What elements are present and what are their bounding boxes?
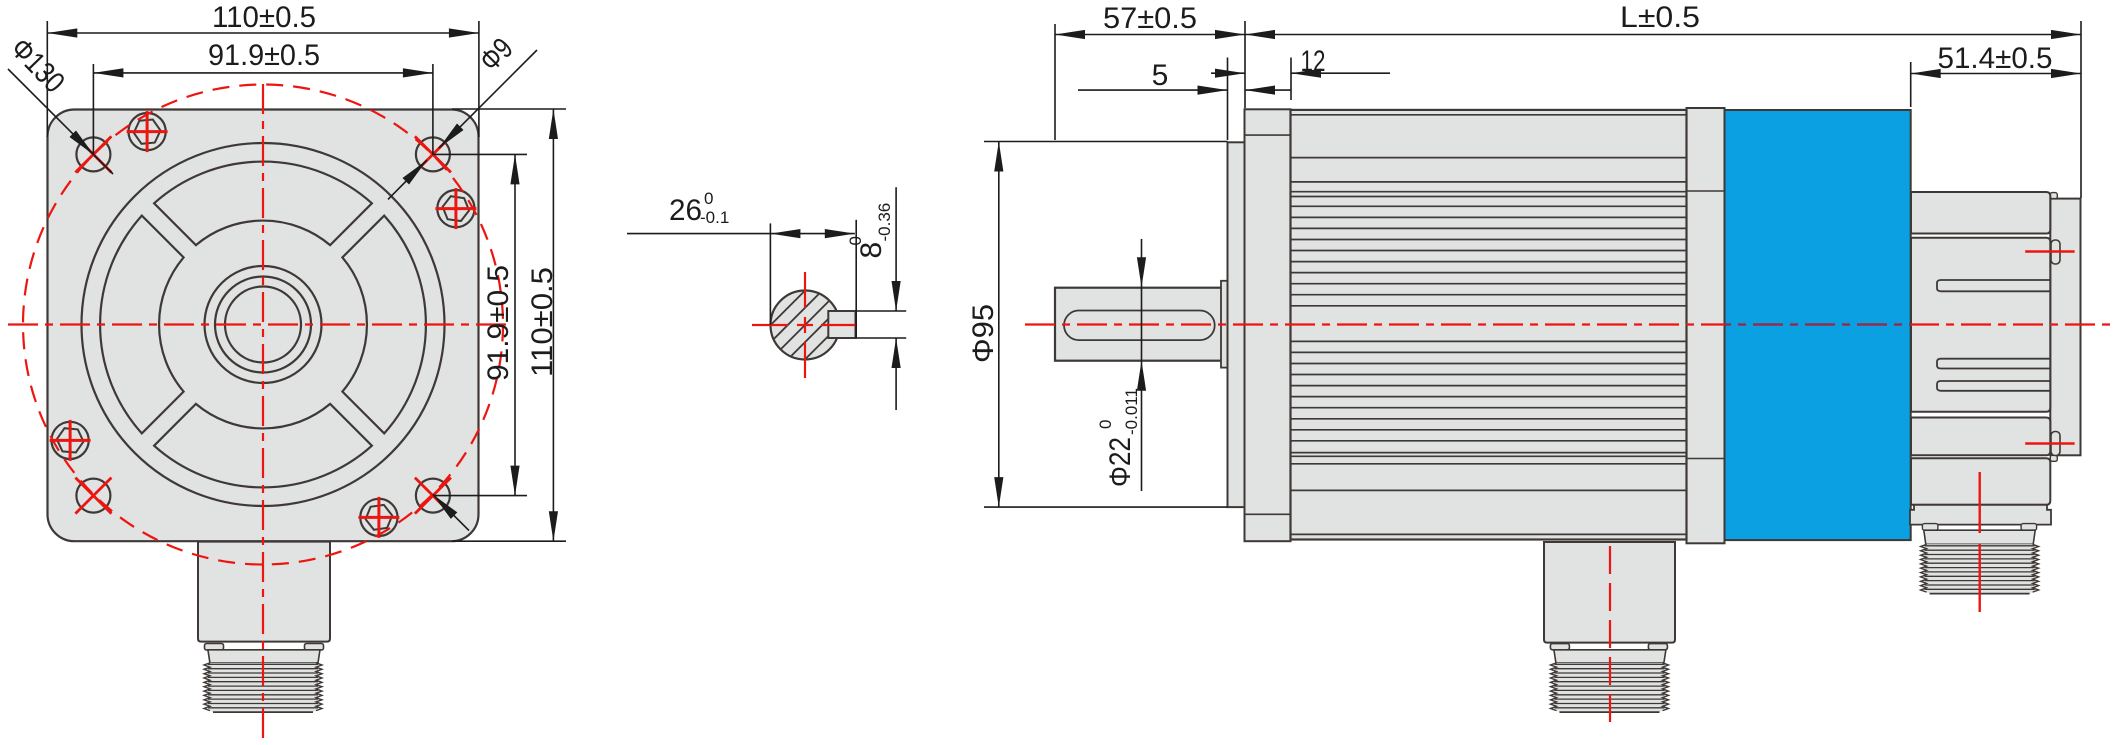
svg-text:0: 0 bbox=[704, 189, 713, 208]
svg-text:-0.1: -0.1 bbox=[700, 208, 729, 227]
svg-text:51.4±0.5: 51.4±0.5 bbox=[1938, 42, 2053, 75]
svg-text:57±0.5: 57±0.5 bbox=[1103, 2, 1197, 35]
svg-text:91.9±0.5: 91.9±0.5 bbox=[482, 265, 515, 381]
svg-text:-0.011: -0.011 bbox=[1122, 388, 1141, 435]
svg-text:0: 0 bbox=[1096, 420, 1115, 429]
svg-text:Φ130: Φ130 bbox=[4, 32, 71, 100]
svg-text:Φ9: Φ9 bbox=[474, 32, 520, 78]
svg-text:5: 5 bbox=[1152, 59, 1169, 92]
svg-text:Φ22: Φ22 bbox=[1104, 437, 1137, 487]
svg-text:110±0.5: 110±0.5 bbox=[212, 1, 316, 34]
svg-text:-0.36: -0.36 bbox=[875, 203, 894, 242]
svg-text:91.9±0.5: 91.9±0.5 bbox=[208, 39, 320, 72]
svg-text:Φ95: Φ95 bbox=[967, 304, 1000, 363]
svg-text:26: 26 bbox=[669, 194, 702, 227]
svg-text:110±0.5: 110±0.5 bbox=[526, 267, 559, 377]
svg-text:L±0.5: L±0.5 bbox=[1620, 1, 1700, 34]
svg-text:12: 12 bbox=[1301, 45, 1326, 78]
svg-text:0: 0 bbox=[846, 236, 865, 245]
